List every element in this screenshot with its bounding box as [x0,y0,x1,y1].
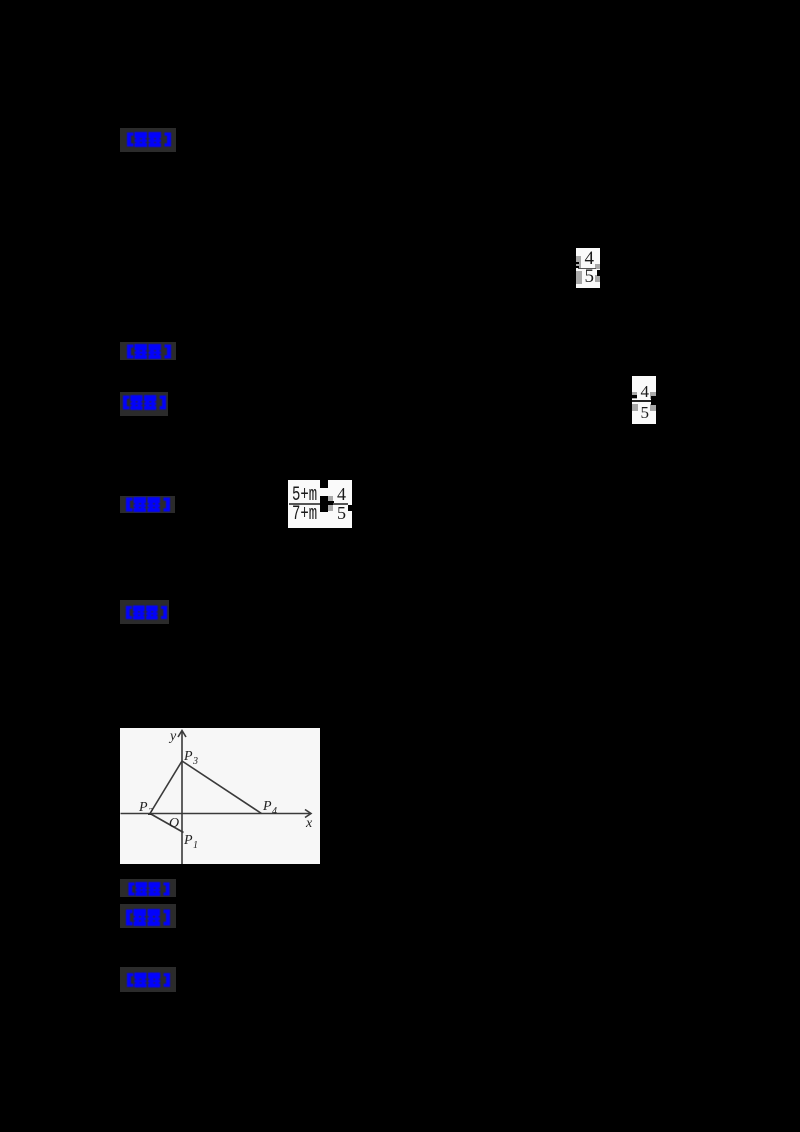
svg-text:O: O [169,816,179,831]
svg-text:P: P [262,799,272,814]
svg-text:x: x [305,816,313,831]
svg-text:P: P [183,749,193,764]
svg-text:1: 1 [193,840,198,851]
svg-text:y: y [168,729,177,744]
svg-text:2: 2 [148,807,153,818]
svg-text:3: 3 [192,756,198,767]
svg-text:4: 4 [272,806,277,817]
svg-text:P: P [138,800,148,815]
svg-text:P: P [183,833,193,848]
